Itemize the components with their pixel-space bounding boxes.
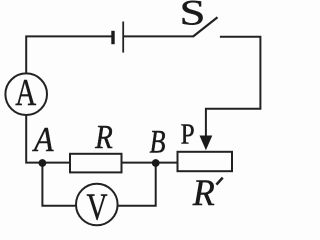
- svg-text:B: B: [150, 124, 166, 160]
- svg-text:A: A: [32, 120, 54, 159]
- svg-text:R: R: [94, 119, 113, 156]
- svg-text:V: V: [87, 187, 108, 229]
- svg-text:P: P: [181, 119, 195, 151]
- svg-text:R: R: [192, 173, 215, 214]
- svg-text:S: S: [180, 0, 206, 33]
- svg-text:A: A: [15, 72, 36, 114]
